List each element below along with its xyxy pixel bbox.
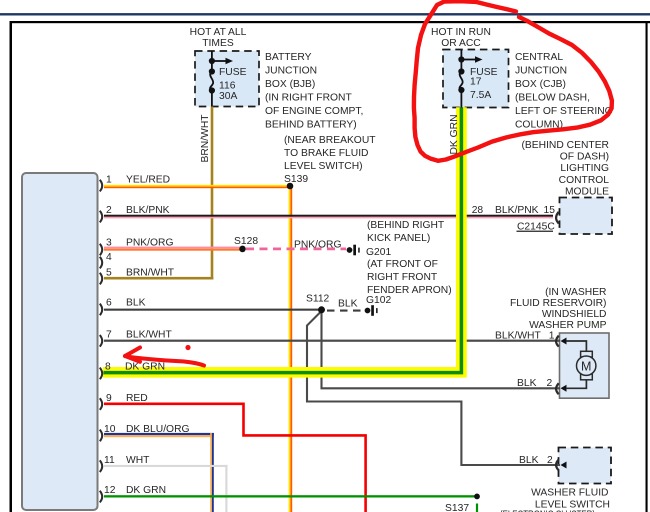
svg-text:CENTRAL: CENTRAL bbox=[515, 52, 563, 63]
svg-text:4: 4 bbox=[106, 252, 112, 263]
svg-text:RIGHT FRONT: RIGHT FRONT bbox=[367, 272, 438, 283]
svg-text:DK GRN: DK GRN bbox=[126, 485, 166, 496]
svg-text:(AT FRONT OF: (AT FRONT OF bbox=[367, 259, 438, 270]
svg-text:12: 12 bbox=[104, 485, 116, 496]
svg-text:BLK/PNK: BLK/PNK bbox=[126, 205, 170, 216]
highlighted DK GRN circuit: green wire bbox=[104, 107, 462, 372]
fuse box CJB (central junction box) bbox=[443, 50, 509, 108]
splice S128 bbox=[239, 246, 246, 253]
svg-text:BLK: BLK bbox=[338, 299, 358, 310]
svg-text:1: 1 bbox=[106, 175, 112, 186]
svg-text:BRN/WHT: BRN/WHT bbox=[200, 114, 211, 163]
wire YEL/RED S139 vertical bbox=[289, 186, 291, 512]
svg-text:5: 5 bbox=[106, 267, 112, 278]
wire PNK dashed to G201 bbox=[246, 248, 346, 251]
wire BRN/WHT horizontal to pin 5 bbox=[104, 277, 213, 280]
svg-text:6: 6 bbox=[106, 298, 112, 309]
svg-text:LEVEL SWITCH): LEVEL SWITCH) bbox=[284, 161, 363, 172]
wire WHT pin 11 bbox=[104, 465, 228, 467]
svg-text:G201: G201 bbox=[366, 247, 391, 258]
wire BLK S112 to level switch bbox=[307, 312, 560, 465]
svg-text:M: M bbox=[581, 359, 591, 373]
svg-text:HOT AT ALL: HOT AT ALL bbox=[190, 27, 247, 38]
svg-text:(BEHIND RIGHT: (BEHIND RIGHT bbox=[367, 220, 445, 231]
svg-text:TIMES: TIMES bbox=[202, 38, 234, 49]
red annotation: circle around CJB bbox=[414, 1, 612, 161]
svg-text:BATTERY: BATTERY bbox=[265, 52, 312, 63]
svg-text:BLK: BLK bbox=[517, 378, 537, 389]
svg-text:JUNCTION: JUNCTION bbox=[515, 66, 567, 77]
svg-text:OF ENGINE COMPT,: OF ENGINE COMPT, bbox=[265, 106, 363, 117]
connector pin brackets (left box) bbox=[100, 180, 102, 503]
svg-text:17: 17 bbox=[470, 77, 482, 88]
wire DK GRN pin 12 bbox=[104, 495, 477, 497]
svg-text:WASHER PUMP: WASHER PUMP bbox=[529, 320, 607, 331]
svg-text:3: 3 bbox=[106, 237, 112, 248]
washer pump motor M1 internals bbox=[566, 341, 586, 352]
svg-text:S112: S112 bbox=[306, 294, 330, 305]
svg-text:15: 15 bbox=[544, 205, 556, 216]
svg-text:WASHER FLUID: WASHER FLUID bbox=[531, 488, 608, 499]
svg-text:WINDSHIELD: WINDSHIELD bbox=[542, 309, 607, 320]
svg-text:BOX (BJB): BOX (BJB) bbox=[265, 79, 315, 90]
svg-text:(IN RIGHT FRONT: (IN RIGHT FRONT bbox=[265, 93, 352, 104]
svg-text:(IN WASHER: (IN WASHER bbox=[545, 287, 606, 298]
wire DK BLU/ORG pin 10 horizontal bbox=[104, 433, 214, 435]
red annotation: small dot bbox=[185, 345, 190, 350]
svg-text:9: 9 bbox=[106, 393, 112, 404]
svg-text:BLK/PNK: BLK/PNK bbox=[495, 205, 539, 216]
svg-text:OF DASH): OF DASH) bbox=[560, 152, 609, 163]
svg-text:PNK/ORG: PNK/ORG bbox=[294, 240, 342, 251]
washer fluid level switch box bbox=[559, 448, 612, 484]
wire BLK S112 to washer pump bbox=[322, 310, 561, 388]
windshield washer pump box bbox=[560, 333, 610, 398]
svg-text:S139: S139 bbox=[284, 174, 308, 185]
svg-text:2: 2 bbox=[106, 205, 112, 216]
svg-text:10: 10 bbox=[104, 424, 116, 435]
svg-text:DK GRN: DK GRN bbox=[449, 114, 460, 154]
svg-text:LEFT OF STEERING: LEFT OF STEERING bbox=[515, 106, 613, 117]
frame left border bbox=[10, 21, 13, 512]
wire BLK pin 6 to S112 bbox=[104, 309, 322, 311]
frame top border bbox=[10, 21, 650, 23]
top navy rule bbox=[0, 13, 650, 15]
svg-text:BLK: BLK bbox=[519, 455, 539, 466]
svg-text:2: 2 bbox=[547, 455, 553, 466]
svg-text:FUSE: FUSE bbox=[219, 67, 247, 78]
wire YEL/RED pin 1 to S139 bbox=[104, 185, 291, 187]
svg-text:8: 8 bbox=[105, 362, 111, 373]
svg-text:FLUID RESERVOIR): FLUID RESERVOIR) bbox=[510, 298, 607, 309]
svg-text:OR ACC: OR ACC bbox=[441, 38, 481, 49]
svg-text:G102: G102 bbox=[366, 295, 391, 306]
fuse box BJB (battery junction box) bbox=[195, 51, 259, 107]
wire DK GRN S137 drop bbox=[476, 504, 478, 512]
svg-text:11: 11 bbox=[104, 455, 115, 466]
svg-text:DK BLU/ORG: DK BLU/ORG bbox=[126, 424, 190, 435]
svg-text:PNK/ORG: PNK/ORG bbox=[126, 237, 174, 248]
wire BRN/WHT vertical from fuse 116 bbox=[211, 107, 214, 280]
svg-text:BLK/WHT: BLK/WHT bbox=[495, 330, 541, 341]
svg-text:28: 28 bbox=[472, 205, 484, 216]
svg-text:S128: S128 bbox=[234, 236, 258, 247]
svg-text:7: 7 bbox=[106, 330, 112, 341]
svg-text:BEHIND BATTERY): BEHIND BATTERY) bbox=[265, 120, 357, 131]
svg-text:(NEAR BREAKOUT: (NEAR BREAKOUT bbox=[284, 135, 376, 146]
splice S137 bbox=[474, 494, 480, 500]
svg-text:BLK: BLK bbox=[126, 298, 146, 309]
fuse 17 internals bbox=[460, 50, 476, 108]
highlighted DK GRN circuit: yellow marker band bbox=[103, 107, 461, 372]
frame right border bbox=[646, 21, 648, 512]
wire PNK/ORG pin 3 solid bbox=[104, 247, 242, 249]
svg-text:WHT: WHT bbox=[126, 455, 150, 466]
ground G201 symbol bbox=[347, 247, 353, 253]
splice S139 bbox=[287, 183, 294, 190]
wire DK BLU/ORG vertical bbox=[210, 433, 212, 512]
svg-text:RED: RED bbox=[126, 393, 148, 404]
wire RED pin 9 bbox=[104, 404, 366, 512]
connector arrows inside pump and switch bbox=[561, 338, 567, 345]
svg-text:JUNCTION: JUNCTION bbox=[265, 66, 317, 77]
svg-text:1: 1 bbox=[549, 330, 555, 341]
svg-text:TO BRAKE FLUID: TO BRAKE FLUID bbox=[284, 148, 369, 159]
svg-text:BOX (CJB): BOX (CJB) bbox=[515, 79, 566, 90]
lighting control module box bbox=[560, 198, 613, 235]
svg-text:HOT IN RUN: HOT IN RUN bbox=[431, 27, 491, 38]
ground G102 symbol bbox=[365, 308, 371, 314]
red annotation: arrow at pin 8 bbox=[127, 357, 204, 366]
module pin brackets (right boxes) bbox=[556, 212, 559, 471]
splice S112 bbox=[318, 306, 325, 313]
wire BLK/PNK pin 2 to LCM pin 15 bbox=[104, 215, 553, 217]
svg-text:CONTROL: CONTROL bbox=[559, 175, 610, 186]
svg-text:7.5A: 7.5A bbox=[470, 90, 491, 101]
svg-text:MODULE: MODULE bbox=[565, 186, 609, 197]
wire BLK/WHT pin 7 to pump pin 1 bbox=[104, 340, 560, 342]
svg-text:(BEHIND CENTER: (BEHIND CENTER bbox=[521, 140, 609, 151]
svg-text:(BELOW DASH,: (BELOW DASH, bbox=[515, 93, 590, 104]
svg-text:DK GRN: DK GRN bbox=[125, 362, 165, 373]
svg-text:2: 2 bbox=[547, 378, 553, 389]
svg-text:YEL/RED: YEL/RED bbox=[126, 175, 170, 186]
wire BLK dashed S112 to G102 bbox=[327, 310, 364, 312]
svg-text:S137: S137 bbox=[445, 503, 469, 512]
fuse 116 internals bbox=[210, 51, 226, 107]
svg-text:LIGHTING: LIGHTING bbox=[560, 163, 609, 174]
svg-text:BLK/WHT: BLK/WHT bbox=[126, 330, 172, 341]
svg-text:116: 116 bbox=[219, 81, 236, 92]
svg-text:KICK PANEL): KICK PANEL) bbox=[367, 233, 430, 244]
svg-text:30A: 30A bbox=[219, 91, 237, 102]
connector C290 box (left instrument cluster connector) bbox=[22, 173, 98, 510]
svg-text:BRN/WHT: BRN/WHT bbox=[126, 267, 175, 278]
